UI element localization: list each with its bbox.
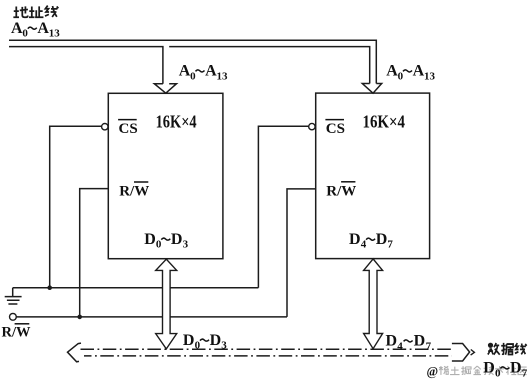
label A0~A13 at chip U2 bus arrow (386, 63, 435, 83)
svg-text:4: 4 (361, 239, 367, 251)
svg-text:D: D (171, 231, 183, 248)
data bus right small chevron (471, 350, 475, 356)
address bus bottom line left segment (9, 47, 163, 84)
svg-text:A: A (11, 20, 23, 37)
svg-text:13: 13 (424, 70, 436, 82)
label 数据线 (data line) bottom right (488, 343, 527, 355)
svg-text:0: 0 (22, 28, 28, 40)
wire R/W branch to chip U1 (80, 189, 109, 317)
svg-text:13: 13 (49, 28, 61, 40)
junction dot CS/ground (47, 285, 52, 290)
title 地址线 (address line) top-left (13, 6, 58, 18)
label D0~D7 bottom right (483, 360, 527, 379)
watermark @稀土掘金技术社区 (439, 366, 527, 375)
address bus top line (9, 40, 376, 83)
svg-text:A: A (37, 20, 49, 37)
svg-text:D: D (210, 332, 222, 349)
svg-text:CS: CS (326, 121, 345, 137)
svg-text:D: D (386, 333, 398, 350)
svg-text:0: 0 (398, 70, 404, 82)
svg-text:R/W: R/W (119, 184, 149, 200)
wire R/W net from terminal to riser (16, 316, 287, 318)
CS bubble chip U2 (309, 123, 315, 129)
svg-text:7: 7 (426, 340, 432, 352)
wire CS branch to chip U1 bubble (50, 126, 102, 288)
svg-text:4: 4 (397, 340, 403, 352)
wire R/W net riser to chip U2 (287, 189, 316, 317)
label D0~D3 chip U1 (144, 231, 188, 251)
svg-text:D: D (483, 360, 495, 377)
label D4~D7 chip U2 (349, 231, 393, 251)
svg-text:0: 0 (195, 340, 201, 352)
svg-text:7: 7 (522, 367, 528, 379)
svg-text:R/W: R/W (2, 324, 32, 340)
data arrow chip U2 (double headed) (364, 259, 383, 349)
data bus right arrow head (452, 344, 470, 362)
svg-text:A: A (413, 63, 425, 80)
svg-text:16K×4: 16K×4 (363, 112, 406, 132)
ground symbol (5, 288, 22, 304)
R/W input terminal circle (10, 313, 17, 320)
chip U2 16Kx4 body (316, 93, 430, 259)
label A0~A13 top left (11, 20, 60, 40)
svg-text:D: D (510, 360, 522, 377)
svg-text:16K×4: 16K×4 (156, 112, 197, 132)
svg-text:A: A (386, 63, 398, 80)
bus arrow head into chip U2 (362, 84, 381, 94)
svg-text:0: 0 (190, 70, 196, 82)
address bus bottom line right segment (169, 47, 370, 84)
svg-text:CS: CS (119, 121, 138, 137)
svg-text:A: A (205, 63, 217, 80)
svg-text:D: D (376, 231, 388, 248)
svg-text:D: D (349, 231, 361, 248)
data arrow chip U1 (double headed) (156, 259, 177, 349)
svg-text:3: 3 (221, 340, 227, 352)
svg-text:D: D (144, 231, 156, 248)
svg-text:13: 13 (217, 70, 229, 82)
data bus dash-dot bottom line (84, 355, 452, 357)
svg-text:@: @ (427, 365, 439, 379)
label A0~A13 at chip U1 bus arrow (179, 63, 228, 83)
svg-text:0: 0 (495, 367, 501, 379)
wire CS net horizontal from ground to riser (13, 287, 259, 289)
svg-text:A: A (179, 63, 191, 80)
data bus dash-dot top line (81, 348, 452, 350)
CS bubble chip U1 (102, 124, 108, 130)
label D4~D7 at data bus (386, 333, 432, 353)
svg-text:R/W: R/W (326, 183, 356, 199)
bus arrow head into chip U1 (154, 84, 176, 94)
data bus left arrow head (68, 343, 82, 362)
wire CS net riser to chip U2 bubble (258, 126, 308, 287)
svg-text:7: 7 (387, 239, 393, 251)
svg-text:0: 0 (156, 239, 162, 251)
junction dot R/W (77, 315, 82, 320)
svg-text:D: D (414, 333, 426, 350)
chip U1 16Kx4 body (108, 93, 223, 258)
svg-text:3: 3 (183, 239, 189, 251)
svg-text:D: D (183, 332, 195, 349)
label D0~D3 at data bus (183, 332, 227, 352)
